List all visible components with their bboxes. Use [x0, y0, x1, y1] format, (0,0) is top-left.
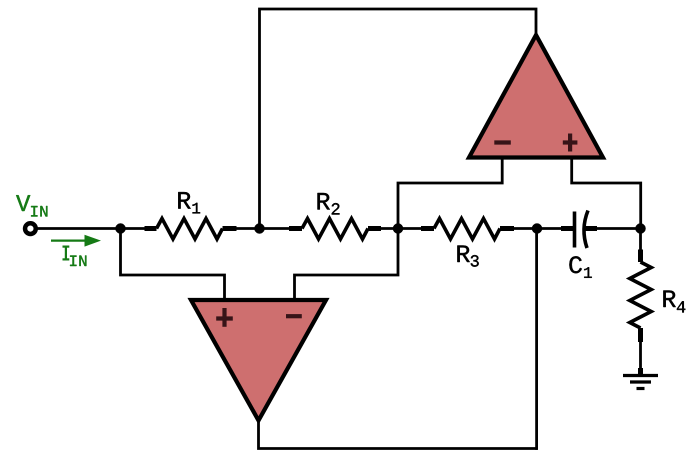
ground [623, 376, 658, 389]
op-amp U2 (bottom) [191, 300, 326, 421]
capacitor C1 [561, 211, 641, 249]
label R3 [457, 246, 469, 263]
current arrow IIN [51, 235, 101, 247]
U2 minus pin label [286, 314, 302, 318]
label R1 [178, 192, 190, 209]
resistor R3 [421, 219, 514, 240]
label C1 [569, 256, 582, 273]
node E junction dot [636, 224, 646, 234]
wire: U1 non-inverting input down to node E [572, 156, 641, 229]
resistor R2 [289, 219, 381, 240]
wire: R1 to R2 through node B [237, 227, 292, 230]
wire: R2 to R3 through node C [381, 227, 423, 230]
label R4 [663, 291, 675, 308]
node B junction dot [255, 224, 265, 234]
U2 plus pin label [216, 308, 233, 327]
wire: node C down to U2 inverting input [295, 229, 399, 302]
wire: R3 to node D [514, 227, 562, 230]
wire: node A down to U2 non-inverting input [121, 229, 225, 302]
label IIN [63, 247, 70, 260]
node A junction dot [116, 224, 126, 234]
U1 plus pin label [563, 134, 578, 152]
wire: node C up to U1 inverting input [398, 156, 502, 229]
label VIN [16, 195, 30, 211]
wire: node B up and across to U1 output [260, 9, 537, 229]
op-amp U1 (top) [469, 35, 603, 158]
node C junction dot [393, 224, 403, 234]
label R2 [318, 193, 330, 210]
wire: input terminal to node A [37, 227, 146, 230]
resistor R4 [630, 229, 651, 375]
U1 minus pin label [494, 140, 511, 144]
input terminal circle [25, 223, 36, 234]
resistor R1 [145, 219, 237, 240]
node D junction dot [532, 224, 542, 234]
wire: U2 output to bottom rail up to node D [259, 421, 538, 449]
wire: node D down to bottom rail [535, 229, 538, 450]
